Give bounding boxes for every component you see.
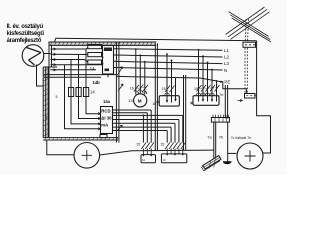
bar terminal ticks [213, 115, 229, 118]
svg-text:15: 15 [162, 87, 166, 91]
arrow on wire 1 [52, 48, 56, 50]
left wall hatch ticks [43, 69, 48, 137]
enclosure top wall (hatched double line) [49, 42, 156, 45]
RCD box [101, 107, 113, 134]
ground wire from bar [227, 122, 229, 161]
bar internal marks [215, 118, 227, 123]
svg-text:PE: PE [224, 80, 230, 85]
distribution wire f [113, 126, 172, 128]
bus line PE [117, 76, 221, 81]
svg-text:13: 13 [128, 98, 133, 103]
svg-text:7b: 7b [219, 134, 224, 139]
wire phase 3 from generator [51, 60, 88, 62]
distribution wire g [113, 130, 168, 132]
wire panel to left circle [47, 140, 74, 155]
fuse F2 [76, 88, 81, 97]
antenna mast dashed pair lower [245, 48, 247, 94]
socket K2 switch strokes [197, 85, 220, 92]
enclosure right wall [225, 85, 227, 119]
wire phase 2 from generator [51, 53, 88, 55]
bus line L3 [114, 61, 223, 63]
bottom box B1 [141, 155, 156, 163]
earth electrode (hatched plate) [202, 156, 222, 171]
antenna X arm set B [226, 7, 270, 39]
RCD output wire b [113, 112, 148, 114]
wire PE to arrester [221, 82, 246, 94]
panel divider wall 2 [184, 75, 186, 150]
motor feed wires [136, 49, 145, 95]
socket K1 terminal arrows [166, 99, 177, 103]
distribution box (tall box) [103, 46, 114, 75]
svg-text:5: 5 [56, 95, 58, 99]
svg-text:mA: mA [101, 123, 108, 128]
PE junction dot [220, 81, 222, 83]
fuse F1 [69, 88, 74, 97]
svg-text:14a: 14a [103, 99, 111, 104]
wire phase 1 from generator [51, 48, 88, 50]
earthing circle (right) [237, 143, 263, 169]
terminal block rect 3 [88, 60, 102, 64]
generator G1 star symbol [27, 48, 42, 66]
junction dots K1 feeds [166, 53, 168, 55]
generator G1 circle [22, 45, 44, 67]
antenna insulator box [243, 42, 256, 47]
socket K1 wires [167, 54, 176, 102]
arrow on wire N [52, 63, 56, 65]
socket box K2 [193, 96, 219, 106]
bottom group 2 stubs [167, 149, 183, 154]
bottom box B2 [161, 154, 186, 163]
antenna X arm set A [229, 12, 271, 42]
bus line N [114, 68, 223, 71]
RCD input arrowheads [98, 113, 100, 131]
RCD text [101, 109, 112, 128]
arrow on wire 3 [52, 58, 56, 60]
bottom group 1 stubs [143, 149, 151, 155]
K2 switch link dashes [198, 87, 217, 90]
distribution wire e [113, 122, 176, 124]
wire drop 3 [86, 49, 101, 114]
B1 terminal arrows [142, 155, 152, 157]
equipotential bar [211, 118, 229, 123]
svg-text:13: 13 [163, 158, 167, 162]
plug links terminal rects to box [102, 47, 104, 64]
arrow pointing to arrester [238, 99, 243, 102]
socket K1 switch strokes [165, 86, 175, 93]
ground symbol (filled bowl) [223, 161, 232, 164]
wire N from generator [51, 64, 103, 66]
socket K1 loop [165, 93, 169, 96]
socket K2 wires [199, 50, 217, 102]
wire hook at left end of overhead line [55, 38, 56, 42]
enclosure left wall lower (hatched) [43, 67, 48, 138]
junction dots K2 feeds [198, 49, 200, 51]
RCD output wire a [113, 109, 152, 111]
svg-text:14: 14 [90, 66, 95, 71]
svg-text:12: 12 [142, 158, 146, 162]
svg-text:L2: L2 [224, 55, 229, 60]
motor wire hooks [136, 91, 147, 95]
svg-text:L1: L1 [224, 48, 229, 53]
svg-text:7c hálózat 7e: 7c hálózat 7e [231, 136, 251, 140]
svg-text:ΔI 30: ΔI 30 [101, 116, 112, 121]
svg-text:16: 16 [152, 102, 156, 106]
RCD bottom terminal box [100, 135, 107, 138]
tall box left pins [102, 51, 103, 63]
main vertical bus pair [116, 42, 119, 143]
panel divider wall 1 [155, 43, 157, 150]
socket K2 left pin [191, 102, 193, 104]
wire generator bottom lead [37, 65, 44, 87]
plus sign in left circle [82, 150, 92, 160]
dark label inside tall box [104, 48, 112, 52]
svg-text:N: N [224, 68, 227, 73]
junction dots motor feeds [135, 48, 137, 50]
antenna downlead solid [257, 41, 271, 153]
motor switch strokes [134, 85, 148, 92]
dark mark at tall box bottom [105, 69, 110, 72]
junction dot group1 [143, 115, 145, 117]
overhead line (top long wire) [56, 38, 257, 40]
svg-text:14: 14 [90, 90, 95, 95]
svg-text:15: 15 [136, 142, 140, 146]
switch on bus upper [118, 67, 122, 74]
switch on bus lower [118, 84, 123, 91]
socket box K1 [159, 96, 179, 106]
arrow on wire 2 [52, 53, 56, 55]
svg-text:M: M [138, 98, 142, 103]
switch on bus at RCD output [118, 125, 123, 130]
title text: II. ev. osztalyu kisfeszultsegu aramfejleszto [7, 23, 45, 44]
inner panel top border [43, 67, 118, 77]
svg-text:L3: L3 [224, 61, 229, 66]
wire drop to fuse 1 [71, 60, 101, 124]
socket K1 left pin [157, 101, 159, 103]
PE drop to K1 area [175, 78, 177, 96]
antenna mast dashed pair upper [245, 19, 248, 43]
fuse F3 [84, 88, 89, 97]
terminal block rect 2 [88, 53, 102, 57]
svg-text:áramfejlesztő: áramfejlesztő [7, 37, 42, 44]
bottom group 1 wires [143, 110, 151, 143]
svg-text:RCD: RCD [101, 109, 110, 114]
bus line L2 [114, 55, 223, 57]
enclosure left wall upper [49, 42, 52, 138]
motor switch link dashes [135, 88, 147, 89]
wire ground to right circle [228, 152, 237, 154]
bus line L1 [114, 49, 223, 51]
wire pair bar to earth electrode [214, 122, 216, 159]
svg-text:7e: 7e [219, 92, 224, 97]
motor M1 circle [134, 94, 147, 107]
svg-text:14b: 14b [93, 80, 101, 85]
socket K2 loops [196, 93, 214, 96]
enclosure bottom wall left panel [43, 138, 118, 140]
socket K2 terminal arrows [202, 99, 214, 101]
svg-text:15: 15 [194, 87, 198, 91]
enclosure bottom border hatch ticks [45, 138, 119, 140]
labels L1 L2 L3 N PE [224, 48, 230, 85]
wire generator output right [44, 53, 51, 55]
svg-text:7a: 7a [207, 134, 212, 139]
terminal block rect 1 [88, 45, 102, 49]
wire drop no fuse [65, 65, 101, 129]
bottom group 2 wires [167, 115, 183, 142]
plus sign in right circle [244, 150, 255, 161]
B2 terminal arrows [166, 154, 184, 156]
enclosure top border hatch ticks [51, 42, 157, 45]
distribution wire d [113, 119, 179, 121]
generator + circle (left) [74, 143, 100, 169]
arrow on wire 5 [52, 69, 56, 71]
bottom group 1 switches [141, 143, 153, 150]
svg-text:15: 15 [160, 142, 164, 146]
wire drop to fuse 2 [79, 54, 101, 118]
RCD output wire c [113, 114, 183, 116]
bottom PE wire across [100, 150, 214, 155]
bottom group 2 switches [165, 143, 185, 150]
tall box bottom stub [107, 74, 109, 77]
lightning arrester box [245, 94, 256, 99]
wire 5 from generator [51, 69, 97, 71]
svg-text:16: 16 [130, 87, 134, 91]
